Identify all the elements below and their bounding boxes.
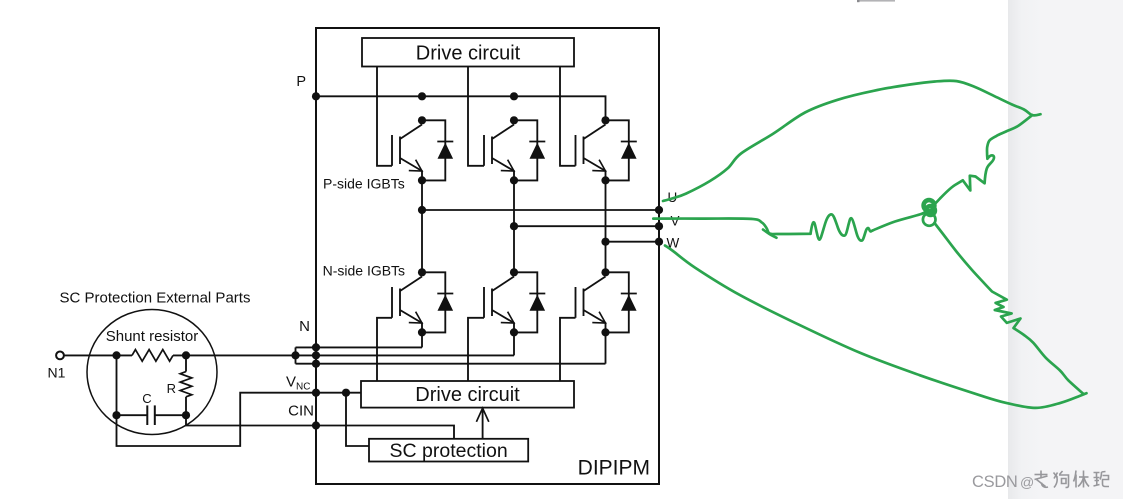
node: rail 3 at module edge bbox=[312, 360, 320, 368]
diode D4 bbox=[437, 293, 453, 295]
wire: P rail bbox=[316, 96, 606, 120]
node: Q3 collector bbox=[601, 116, 609, 124]
wire: R bottom lead bbox=[185, 397, 187, 415]
wire: C right lead bbox=[155, 414, 186, 416]
annotation: green small tail on V stroke bbox=[763, 230, 777, 238]
svg-text:P: P bbox=[296, 74, 306, 90]
svg-text:V: V bbox=[671, 214, 680, 229]
wire: gate drive Q4 bbox=[377, 318, 392, 381]
diode D6 bbox=[621, 293, 637, 295]
node: V at module edge bbox=[655, 222, 663, 230]
watermark hanzi 老 bbox=[1035, 471, 1049, 488]
node: U at leg bbox=[418, 206, 426, 214]
wire: N bus vertical bbox=[295, 347, 297, 363]
diode D1 bbox=[437, 141, 453, 143]
wire: N-side emitter rail 1 bbox=[296, 346, 423, 348]
annotation: green stroke from W (lower arc) bbox=[665, 246, 1087, 408]
svg-text:Drive circuit: Drive circuit bbox=[415, 384, 520, 406]
annotation: green zigzag on V stroke bbox=[811, 214, 873, 240]
node: W at module edge bbox=[655, 238, 663, 246]
drive circuit box (top) bbox=[362, 38, 574, 67]
svg-text:Shunt resistor: Shunt resistor bbox=[106, 328, 199, 345]
wire: collector link N4 bbox=[422, 272, 445, 332]
wire: U phase leg bbox=[421, 180, 423, 272]
svg-text:SC Protection External Parts: SC Protection External Parts bbox=[60, 289, 251, 306]
node: Q2 collector bbox=[510, 116, 518, 124]
wire: R top lead bbox=[185, 355, 187, 371]
right side panel (gray) bbox=[1008, 0, 1123, 499]
svg-text:N1: N1 bbox=[48, 365, 66, 381]
node: Q4 collector bbox=[418, 268, 426, 276]
annotation: green stroke V to knot bbox=[873, 212, 927, 231]
node: rail 2 at module edge bbox=[312, 351, 320, 359]
transistor Q4 (N-side IGBT) bbox=[391, 287, 393, 318]
annotation: green knot scribble bbox=[924, 200, 935, 211]
wire: VNC loop (C bottom to VNC terminal) bbox=[117, 393, 317, 446]
wire: collector link P3 bbox=[606, 120, 629, 180]
watermark hanzi 跑 bbox=[1094, 472, 1110, 487]
node: C right / R bottom bbox=[182, 411, 190, 419]
node: VNC branch junction bbox=[342, 389, 350, 397]
wire: gate drive Q2 bbox=[468, 67, 484, 166]
wire: Q5 emitter drop bbox=[513, 332, 515, 355]
shunt resistor (zigzag) bbox=[132, 350, 173, 362]
node: Q6 collector bbox=[601, 268, 609, 276]
node: P rail at left edge bbox=[312, 92, 320, 100]
wire: collector link P1 bbox=[422, 120, 445, 180]
node: Q1 emitter bbox=[418, 176, 426, 184]
circle: SC protection external parts group bbox=[87, 310, 217, 435]
node: Q6 emitter bbox=[601, 328, 609, 336]
svg-text:@: @ bbox=[1020, 474, 1034, 490]
wire: CIN line bbox=[186, 415, 454, 439]
wire: N1 to shunt bbox=[64, 354, 132, 356]
node: Q1 collector bbox=[418, 116, 426, 124]
node: rail 1 at module edge bbox=[312, 343, 320, 351]
wire: C left lead bbox=[117, 414, 148, 416]
wire: VNC branch to SC protection bbox=[346, 393, 369, 446]
wire: Q6 emitter drop bbox=[605, 332, 607, 363]
node: Q4 emitter bbox=[418, 328, 426, 336]
arrow: SC protection to drive circuit bbox=[482, 410, 484, 439]
transistor Q2 (P-side IGBT) bbox=[483, 135, 485, 166]
resistor R (zigzag) bbox=[180, 372, 192, 397]
wire: collector link N6 bbox=[606, 272, 629, 332]
node: CIN terminal bbox=[312, 421, 320, 429]
wire: collector link N5 bbox=[514, 272, 537, 332]
wire: VNC into drive circuit bbox=[316, 392, 361, 394]
svg-text:P-side IGBTs: P-side IGBTs bbox=[323, 176, 405, 192]
wire: gate drive Q6 bbox=[560, 318, 576, 381]
node: Q3 emitter bbox=[601, 176, 609, 184]
node: P rail / Q2 collector bbox=[510, 92, 518, 100]
diode D3 bbox=[621, 141, 637, 143]
wire: gate drive Q1 bbox=[377, 67, 392, 166]
node: W at leg bbox=[601, 238, 609, 246]
svg-text:N: N bbox=[299, 318, 310, 335]
diode D5 bbox=[529, 293, 545, 295]
transistor Q1 (P-side IGBT) bbox=[391, 135, 393, 166]
node: V at leg bbox=[510, 222, 518, 230]
node: Q2 emitter bbox=[510, 176, 518, 184]
wire: left branch down to C bbox=[116, 355, 118, 415]
wire: W rail bbox=[606, 241, 660, 243]
node: VNC terminal bbox=[312, 389, 320, 397]
DIPIPM module outline bbox=[316, 28, 659, 484]
wire: gate drive Q5 bbox=[468, 318, 484, 381]
node: C left bbox=[112, 411, 120, 419]
svg-text:DIPIPM: DIPIPM bbox=[578, 457, 650, 480]
svg-text:N-side IGBTs: N-side IGBTs bbox=[323, 263, 405, 279]
node: Q5 collector bbox=[510, 268, 518, 276]
annotation: green stroke return zigzag (upper) bbox=[933, 115, 1032, 206]
transistor Q5 (N-side IGBT) bbox=[483, 287, 485, 318]
wire: gate drive Q3 bbox=[560, 67, 576, 166]
wire: U rail bbox=[422, 209, 659, 211]
svg-text:R: R bbox=[167, 381, 176, 396]
annotation: green stroke from U (upper arc) bbox=[663, 81, 1041, 201]
wire: collector link P2 bbox=[514, 120, 537, 180]
wire: W phase leg bbox=[605, 180, 607, 272]
transistor Q3 (P-side IGBT) bbox=[575, 135, 577, 166]
diode D2 bbox=[529, 141, 545, 143]
node: U at module edge bbox=[655, 206, 663, 214]
svg-text:Drive circuit: Drive circuit bbox=[416, 43, 521, 65]
node: shunt right bbox=[182, 351, 190, 359]
watermark hanzi 狗 bbox=[1054, 471, 1069, 488]
node: shunt left bbox=[112, 351, 120, 359]
svg-text:SC protection: SC protection bbox=[390, 440, 508, 462]
wire: N-side emitter rail 3 bbox=[296, 363, 606, 365]
wire: shunt to N bus bbox=[173, 354, 296, 356]
capacitor C (plates) bbox=[146, 405, 148, 425]
top toolbar remnant line bbox=[857, 0, 895, 2]
drive circuit box (bottom) bbox=[361, 381, 574, 408]
SC protection box bbox=[369, 439, 528, 462]
transistor Q6 (N-side IGBT) bbox=[575, 287, 577, 318]
node: P rail / Q1 collector bbox=[418, 92, 426, 100]
annotation: green stroke from V (horizontal) bbox=[653, 219, 810, 235]
svg-text:C: C bbox=[142, 391, 151, 406]
node: N bus junction bbox=[291, 351, 299, 359]
svg-text:CIN: CIN bbox=[288, 403, 314, 420]
node: Q5 emitter bbox=[510, 328, 518, 336]
wire: V rail bbox=[514, 225, 659, 227]
annotation: green stroke knot to lower tip (zigzag) bbox=[935, 223, 1084, 394]
watermark hanzi 休 bbox=[1074, 471, 1090, 488]
wire: N-side emitter rail 2 bbox=[296, 354, 515, 356]
terminal N1 (open circle) bbox=[56, 352, 64, 360]
wire: Q4 emitter drop bbox=[421, 332, 423, 347]
wire: V phase leg bbox=[513, 180, 515, 272]
svg-text:CSDN: CSDN bbox=[972, 473, 1018, 491]
